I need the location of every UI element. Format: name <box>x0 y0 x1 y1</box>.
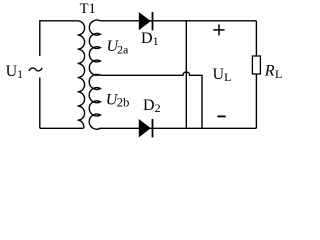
svg-text:D1: D1 <box>141 30 159 48</box>
svg-text:L: L <box>275 67 282 81</box>
svg-text:2b: 2b <box>117 96 130 110</box>
svg-text:D2: D2 <box>143 97 161 115</box>
svg-text:T1: T1 <box>80 1 96 17</box>
svg-text:UL: UL <box>213 66 232 84</box>
svg-text:U1: U1 <box>6 63 24 81</box>
svg-text:2a: 2a <box>117 42 129 56</box>
svg-text:R: R <box>264 63 275 80</box>
